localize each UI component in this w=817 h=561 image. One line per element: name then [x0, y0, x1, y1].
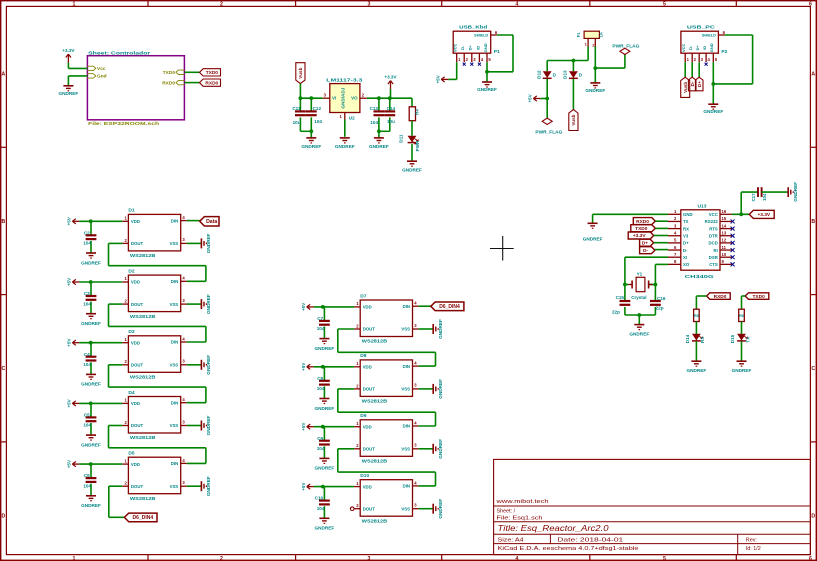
svg-text:C17: C17	[751, 193, 756, 202]
svg-text:DIN: DIN	[403, 304, 410, 309]
svg-text:C8: C8	[317, 376, 323, 381]
svg-text:2: 2	[220, 556, 223, 561]
svg-text:104: 104	[83, 423, 91, 428]
svg-text:GNDREF: GNDREF	[583, 237, 603, 242]
svg-text:D11: D11	[399, 134, 404, 143]
svg-text:Title: Esq_Reactor_Arc2.0: Title: Esq_Reactor_Arc2.0	[498, 524, 610, 533]
svg-text:GNDREF: GNDREF	[315, 346, 335, 351]
svg-text:D+: D+	[468, 45, 473, 51]
svg-text:1: 1	[73, 556, 76, 561]
svg-text:14: 14	[722, 223, 727, 228]
svg-text:+3.3V: +3.3V	[384, 74, 397, 79]
svg-text:F1: F1	[576, 32, 581, 38]
svg-text:TXD0: TXD0	[206, 70, 219, 76]
svg-text:GNDREF: GNDREF	[206, 355, 211, 375]
svg-text:GND: GND	[709, 43, 714, 52]
svg-text:+5V: +5V	[301, 422, 306, 431]
svg-text:CTS: CTS	[709, 262, 718, 267]
svg-text:V3: V3	[683, 233, 689, 238]
svg-text:Sheet: Controlador: Sheet: Controlador	[88, 51, 150, 57]
svg-text:GNDREF: GNDREF	[301, 144, 321, 149]
svg-text:4: 4	[516, 2, 519, 8]
svg-text:VSS: VSS	[170, 423, 179, 428]
svg-text:DIN: DIN	[171, 340, 178, 345]
svg-text:104: 104	[317, 386, 325, 391]
svg-text:C11: C11	[292, 106, 301, 111]
svg-text:D+: D+	[642, 240, 648, 246]
svg-text:CH340G: CH340G	[685, 274, 714, 280]
svg-text:File: ESP32ROOM.sch: File: ESP32ROOM.sch	[88, 121, 159, 127]
svg-text:D-: D-	[688, 45, 693, 50]
svg-text:GNDREF: GNDREF	[81, 321, 101, 326]
svg-text:GNDREF: GNDREF	[315, 526, 335, 531]
svg-text:104: 104	[83, 362, 91, 367]
svg-text:DOUT: DOUT	[363, 447, 376, 452]
svg-text:www.mibot.tech: www.mibot.tech	[495, 499, 548, 505]
svg-text:WS2812B: WS2812B	[130, 253, 156, 259]
svg-text:VDD: VDD	[131, 219, 140, 224]
svg-text:D14: D14	[685, 334, 690, 343]
svg-text:DOUT: DOUT	[131, 363, 144, 368]
svg-text:5: 5	[663, 556, 666, 561]
svg-text:D1: D1	[128, 208, 135, 214]
svg-text:GNDREF: GNDREF	[315, 406, 335, 411]
svg-text:D-: D-	[643, 248, 648, 254]
svg-text:Vusb: Vusb	[298, 67, 303, 78]
svg-text:VSS: VSS	[170, 484, 179, 489]
svg-text:RXD0: RXD0	[162, 80, 175, 86]
svg-text:VCC: VCC	[709, 212, 718, 217]
svg-text:TX: TX	[745, 336, 750, 343]
svg-text:D10: D10	[360, 473, 369, 479]
svg-text:WS2812B: WS2812B	[130, 314, 156, 320]
svg-text:WS2812B: WS2812B	[362, 518, 388, 524]
svg-text:RX: RX	[700, 336, 705, 343]
svg-text:RXD0: RXD0	[205, 80, 218, 86]
svg-text:D7: D7	[360, 293, 367, 299]
svg-text:6: 6	[809, 2, 812, 8]
svg-text:D6_DIN4: D6_DIN4	[439, 304, 460, 310]
svg-text:+5V: +5V	[301, 302, 306, 311]
svg-text:U13: U13	[698, 204, 707, 210]
svg-text:R5: R5	[694, 313, 700, 318]
svg-text:Crystal: Crystal	[631, 295, 646, 300]
svg-text:+5V: +5V	[301, 482, 306, 491]
svg-text:WS2812B: WS2812B	[362, 339, 388, 345]
svg-text:104: 104	[317, 326, 325, 331]
svg-text:D-: D-	[683, 248, 688, 253]
svg-text:+3.3V: +3.3V	[62, 48, 75, 53]
svg-text:C6: C6	[84, 473, 90, 478]
svg-text:D13: D13	[563, 70, 568, 79]
svg-text:GNDREF: GNDREF	[206, 476, 211, 496]
svg-text:GNDREF: GNDREF	[438, 379, 443, 399]
svg-text:GNDREF: GNDREF	[438, 319, 443, 339]
svg-text:VDD: VDD	[131, 401, 140, 406]
svg-text:DSR: DSR	[709, 255, 719, 260]
svg-text:13: 13	[722, 230, 727, 235]
svg-text:11: 11	[722, 245, 727, 250]
svg-text:D-: D-	[690, 81, 695, 86]
svg-text:104: 104	[762, 193, 767, 201]
svg-text:GNDREF: GNDREF	[206, 294, 211, 314]
svg-text:RS232: RS232	[705, 219, 719, 224]
svg-text:D12: D12	[536, 70, 541, 79]
svg-text:104: 104	[317, 446, 325, 451]
svg-text:GNDREF: GNDREF	[81, 503, 101, 508]
svg-text:DIN: DIN	[403, 364, 410, 369]
svg-text:C9: C9	[317, 436, 323, 441]
svg-text:D: D	[811, 514, 815, 520]
svg-text:KiCad E.D.A. eeschema 4.0.7+d: KiCad E.D.A. eeschema 4.0.7+dfsg1-stable	[498, 546, 639, 552]
svg-text:DIN: DIN	[171, 218, 178, 223]
svg-text:1: 1	[73, 2, 76, 8]
svg-text:GNDREF: GNDREF	[438, 439, 443, 459]
svg-text:3: 3	[368, 556, 371, 561]
svg-text:RX: RX	[683, 226, 689, 231]
svg-text:RI: RI	[713, 248, 717, 253]
svg-text:D6_DIN4: D6_DIN4	[133, 515, 154, 521]
svg-text:GNDREF: GNDREF	[687, 368, 707, 373]
svg-text:Data: Data	[206, 219, 217, 225]
svg-text:D9: D9	[360, 413, 367, 419]
svg-text:TXD0: TXD0	[635, 226, 648, 232]
svg-text:5: 5	[663, 2, 666, 8]
svg-text:C10: C10	[315, 496, 324, 501]
svg-text:Vcc: Vcc	[97, 66, 106, 72]
svg-text:DIN: DIN	[171, 400, 178, 405]
svg-text:C7: C7	[317, 316, 323, 321]
svg-text:D15: D15	[730, 334, 735, 343]
svg-text:GNDREF: GNDREF	[81, 442, 101, 447]
svg-text:GNDREF: GNDREF	[315, 466, 335, 471]
svg-text:3: 3	[368, 2, 371, 8]
svg-text:DCD: DCD	[708, 241, 717, 246]
svg-text:U2: U2	[349, 115, 355, 120]
svg-text:PWR_FLAG: PWR_FLAG	[612, 43, 639, 48]
svg-text:6: 6	[809, 556, 812, 561]
svg-text:2: 2	[220, 2, 223, 8]
svg-text:+5V: +5V	[67, 277, 72, 286]
svg-text:VDD: VDD	[363, 305, 372, 310]
svg-text:DOUT: DOUT	[363, 387, 376, 392]
svg-text:VSS: VSS	[401, 327, 410, 332]
svg-text:VDD: VDD	[131, 340, 140, 345]
svg-text:DTR: DTR	[709, 233, 719, 238]
svg-text:15: 15	[722, 216, 727, 221]
svg-text:XO: XO	[683, 262, 690, 267]
svg-text:C4: C4	[84, 352, 90, 357]
svg-text:DIN: DIN	[403, 484, 410, 489]
svg-text:WS2812B: WS2812B	[362, 399, 388, 405]
svg-text:+3.3V: +3.3V	[757, 212, 770, 218]
svg-text:GND: GND	[483, 43, 488, 52]
svg-text:WS2812B: WS2812B	[130, 375, 156, 381]
svg-text:Y1: Y1	[637, 272, 643, 277]
svg-text:DIN: DIN	[403, 424, 410, 429]
svg-text:104: 104	[83, 301, 91, 306]
svg-text:WS2812B: WS2812B	[362, 459, 388, 465]
svg-text:C16: C16	[657, 296, 666, 301]
svg-text:C3: C3	[84, 291, 90, 296]
svg-text:GNDREF: GNDREF	[81, 382, 101, 387]
svg-text:VSS: VSS	[401, 506, 410, 511]
svg-text:WS2812B: WS2812B	[130, 435, 156, 441]
svg-text:P1: P1	[494, 49, 500, 55]
svg-text:GNDREF: GNDREF	[438, 499, 443, 519]
svg-text:10u: 10u	[293, 120, 301, 125]
svg-text:DOUT: DOUT	[131, 241, 144, 246]
svg-text:VDD: VDD	[363, 365, 372, 370]
svg-text:DOUT: DOUT	[363, 506, 376, 511]
svg-text:C13: C13	[370, 106, 379, 111]
svg-text:TX: TX	[683, 219, 689, 224]
svg-text:+5V: +5V	[67, 216, 72, 225]
svg-text:A: A	[2, 72, 6, 78]
svg-text:PWR: PWR	[415, 140, 420, 151]
svg-text:10: 10	[722, 252, 727, 257]
svg-text:C: C	[2, 366, 6, 372]
svg-text:DIN: DIN	[171, 461, 178, 466]
svg-text:B: B	[811, 219, 815, 225]
svg-text:22p: 22p	[612, 309, 620, 314]
svg-text:D8: D8	[360, 353, 367, 359]
svg-text:R4: R4	[415, 109, 420, 115]
svg-text:GNDREF: GNDREF	[59, 91, 79, 96]
svg-text:USB_PC: USB_PC	[687, 25, 716, 31]
svg-text:D-: D-	[460, 45, 465, 50]
svg-text:GNDREF: GNDREF	[206, 233, 211, 253]
svg-text:+5V: +5V	[436, 74, 441, 83]
svg-text:VDD: VDD	[131, 462, 140, 467]
svg-text:ID: ID	[475, 46, 480, 50]
svg-text:A: A	[811, 72, 815, 78]
svg-text:+5V: +5V	[67, 398, 72, 407]
svg-text:R6: R6	[739, 313, 745, 318]
svg-text:1A: 1A	[599, 32, 604, 37]
svg-text:D+: D+	[697, 81, 702, 87]
svg-text:104: 104	[83, 483, 91, 488]
svg-text:Sheet: /: Sheet: /	[497, 509, 516, 515]
svg-text:TXD0: TXD0	[752, 294, 765, 300]
svg-text:RXD0: RXD0	[714, 294, 727, 300]
svg-text:C12: C12	[313, 106, 322, 111]
svg-text:GND: GND	[683, 212, 693, 217]
svg-text:RXD0: RXD0	[636, 219, 649, 225]
svg-text:104: 104	[83, 241, 91, 246]
svg-text:VSS: VSS	[401, 387, 410, 392]
svg-text:Gnd: Gnd	[97, 74, 107, 80]
svg-text:VO: VO	[351, 95, 358, 100]
svg-text:VCC: VCC	[681, 43, 686, 52]
svg-text:C14: C14	[387, 106, 396, 111]
svg-text:12: 12	[722, 238, 727, 243]
svg-text:Date: 2018-04-01: Date: 2018-04-01	[557, 538, 623, 544]
svg-text:GNDREF: GNDREF	[402, 167, 422, 172]
svg-text:C2: C2	[84, 230, 90, 235]
svg-text:GNDREF: GNDREF	[369, 144, 389, 149]
svg-text:VCC: VCC	[453, 43, 458, 52]
svg-text:GND/ADJ: GND/ADJ	[341, 87, 346, 109]
svg-text:TXD0: TXD0	[163, 70, 176, 76]
svg-text:DOUT: DOUT	[363, 327, 376, 332]
svg-text:GNDREF: GNDREF	[335, 144, 355, 149]
svg-text:GNDREF: GNDREF	[81, 260, 101, 265]
svg-text:D4: D4	[128, 390, 135, 396]
svg-text:PWR_FLAG: PWR_FLAG	[535, 130, 562, 135]
svg-text:VSS: VSS	[170, 241, 179, 246]
svg-text:+5V: +5V	[67, 338, 72, 347]
svg-text:GNDREF: GNDREF	[793, 182, 798, 202]
svg-text:P2: P2	[721, 49, 727, 55]
svg-text:GNDREF: GNDREF	[703, 109, 723, 114]
svg-text:VSS: VSS	[401, 447, 410, 452]
svg-text:ID: ID	[702, 46, 707, 50]
svg-text:GNDREF: GNDREF	[206, 415, 211, 435]
svg-text:Id: 1/2: Id: 1/2	[746, 546, 761, 552]
svg-text:+5V: +5V	[301, 362, 306, 371]
svg-text:USB_Kbd: USB_Kbd	[459, 25, 487, 31]
svg-text:104: 104	[314, 119, 322, 124]
svg-text:XI: XI	[683, 255, 687, 260]
svg-text:VSS: VSS	[170, 302, 179, 307]
svg-text:DOUT: DOUT	[131, 423, 144, 428]
svg-text:+5V: +5V	[67, 459, 72, 468]
svg-text:D+: D+	[695, 45, 700, 51]
svg-text:GNDREF: GNDREF	[477, 87, 497, 92]
svg-text:DIN: DIN	[171, 279, 178, 284]
svg-text:File: Esq1.sch: File: Esq1.sch	[497, 516, 543, 522]
svg-text:VSS: VSS	[170, 363, 179, 368]
svg-text:C15: C15	[616, 295, 625, 300]
svg-text:4: 4	[516, 556, 519, 561]
svg-text:SHIELD: SHIELD	[474, 34, 488, 38]
svg-text:D: D	[2, 514, 6, 520]
svg-text:104: 104	[370, 120, 378, 125]
svg-text:DOUT: DOUT	[131, 302, 144, 307]
svg-text:16: 16	[722, 209, 727, 214]
svg-text:VDD: VDD	[131, 280, 140, 285]
svg-text:GNDREF: GNDREF	[585, 88, 605, 93]
svg-text:+5V: +5V	[528, 93, 533, 102]
svg-text:DOUT: DOUT	[131, 484, 144, 489]
svg-text:C5: C5	[84, 413, 90, 418]
svg-text:VI: VI	[332, 95, 336, 100]
svg-text:D3: D3	[128, 329, 135, 335]
svg-text:+3.3V: +3.3V	[633, 233, 646, 239]
svg-text:22p: 22p	[656, 306, 664, 311]
svg-text:RTS: RTS	[709, 226, 718, 231]
svg-text:Vusb: Vusb	[683, 82, 688, 93]
svg-text:SHIELD: SHIELD	[702, 34, 716, 38]
svg-text:WS2812B: WS2812B	[130, 496, 156, 502]
svg-text:VDD: VDD	[363, 484, 372, 489]
svg-text:LM1117-3.3: LM1117-3.3	[326, 78, 362, 84]
svg-text:C: C	[811, 366, 815, 372]
svg-text:GNDREF: GNDREF	[732, 368, 752, 373]
svg-text:VDD: VDD	[363, 424, 372, 429]
svg-text:Rev:: Rev:	[746, 538, 757, 544]
svg-text:Vusb: Vusb	[571, 114, 576, 125]
svg-text:D+: D+	[683, 241, 689, 246]
svg-text:B: B	[2, 219, 6, 225]
svg-text:D2: D2	[128, 268, 135, 274]
svg-text:10u: 10u	[387, 119, 395, 124]
svg-text:104: 104	[317, 506, 325, 511]
svg-text:GNDREF: GNDREF	[629, 331, 649, 336]
svg-text:D5: D5	[128, 451, 135, 457]
svg-text:Size: A4: Size: A4	[498, 538, 524, 544]
